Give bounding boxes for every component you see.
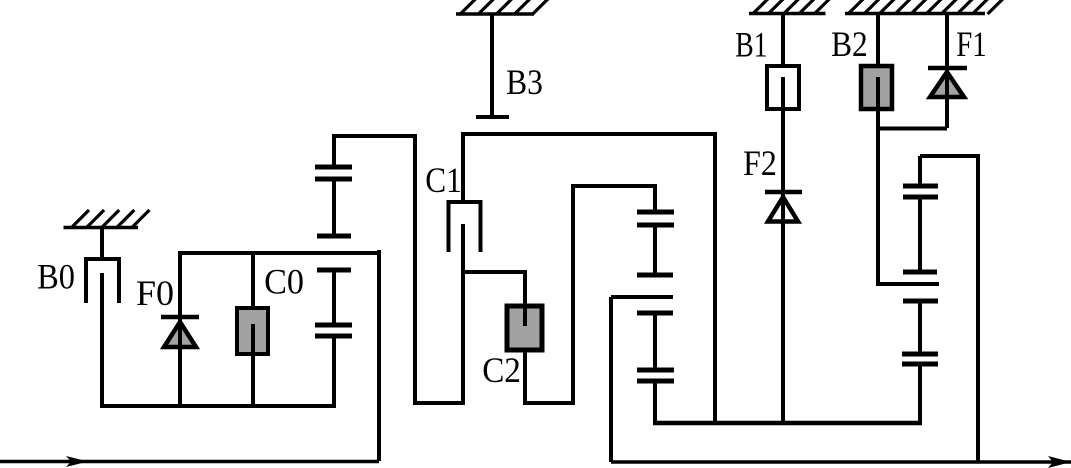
label B3 [506, 63, 543, 102]
ground hatch for B1 [749, 0, 830, 14]
label F2 [743, 144, 777, 183]
output arrow [1048, 456, 1071, 468]
gear mesh (left upper): stub, plates, T-bar [315, 136, 352, 236]
wire: bottom bus y423 [653, 421, 922, 426]
label B1 [735, 24, 767, 64]
wire: output vertical x978 [976, 154, 980, 462]
wire: middle top wire [461, 132, 717, 136]
wire: long vertical x715 [713, 132, 717, 423]
ground hatch for B2/F1 [845, 0, 1004, 14]
gear mesh (middle upper): stub, plates, T-bar [637, 186, 674, 275]
wire: right top wire y156 [920, 154, 978, 158]
svg-text:C2: C2 [482, 351, 521, 391]
label C0 [264, 262, 304, 302]
gear mesh (left lower): T-bar, stub, plates [315, 270, 352, 408]
label B2 [831, 25, 868, 64]
brake B1 [767, 12, 799, 423]
svg-text:C1: C1 [425, 161, 461, 201]
clutch C1 [449, 134, 481, 403]
svg-text:B0: B0 [37, 257, 75, 297]
clutch C2 [507, 272, 542, 403]
one-way clutch F2 [765, 192, 802, 226]
wire: bottom wire under C2 [523, 401, 573, 405]
label C1 [425, 161, 461, 201]
wire: F0 vertical [178, 251, 182, 406]
wire: left top wire [332, 134, 417, 138]
gear mesh (right upper): stub, plates, T-bar [903, 156, 938, 272]
gear mesh (middle lower): T-bar, stub, plates [637, 313, 674, 423]
svg-text:B3: B3 [506, 63, 543, 102]
wire: left block top bus [178, 251, 379, 255]
one-way clutch F0 [161, 317, 199, 406]
label F0 [136, 273, 174, 313]
input shaft line [0, 460, 379, 464]
wire: bottom wire under C1 [413, 401, 465, 405]
wire: middle left vertical [413, 134, 417, 403]
svg-text:F1: F1 [956, 25, 986, 65]
wire: middle ring wire y297 [611, 295, 673, 299]
wire: left block right vertical [377, 250, 381, 461]
gear mesh (right lower): T-bar, stub, plates [902, 301, 938, 423]
wire: B2 ring wire y284 [876, 282, 939, 286]
clutch C0 [237, 251, 268, 406]
wire: B2-F1 connector y126 [878, 127, 947, 131]
output shaft line [611, 460, 1071, 464]
wire: vertical x573 [571, 186, 575, 405]
wire: left block bottom bus [100, 404, 334, 408]
svg-text:C0: C0 [264, 262, 304, 302]
svg-text:F2: F2 [743, 144, 777, 183]
one-way clutch F1 [928, 12, 967, 128]
label C2 [482, 351, 521, 391]
label B0 [37, 257, 75, 297]
svg-text:F0: F0 [136, 273, 174, 313]
svg-text:B2: B2 [831, 25, 868, 64]
svg-text:B1: B1 [735, 24, 767, 64]
label F1 [956, 25, 986, 65]
wire: vertical x611 to output [609, 297, 613, 462]
brake B0 [86, 227, 119, 408]
brake B3 [476, 13, 509, 117]
wire: C2 top wire [461, 270, 527, 274]
ground hatch for B3 [456, 0, 548, 15]
brake B2 [861, 12, 892, 284]
ground hatch for B0 [64, 210, 150, 228]
wire: wire y186 [571, 184, 657, 188]
input arrow [66, 456, 88, 467]
